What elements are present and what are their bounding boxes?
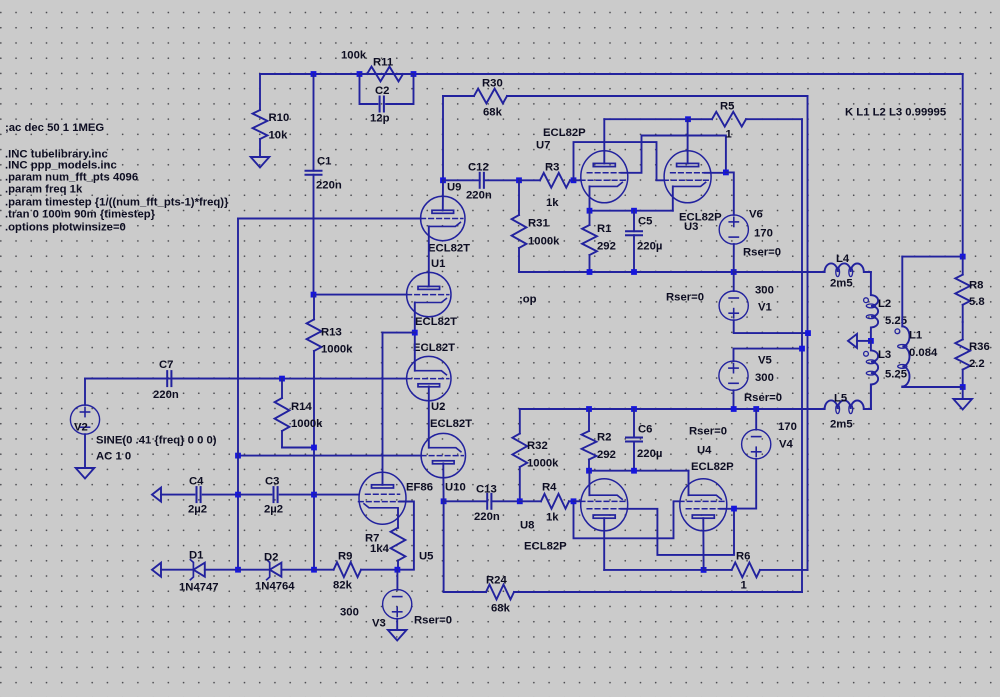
node junction R13net C row <box>311 492 317 498</box>
label C6 <box>638 423 652 435</box>
svg-text:82k: 82k <box>333 579 353 591</box>
wire V6 top lead <box>726 172 734 215</box>
node junction C1 R13 U1grid <box>311 292 317 298</box>
node junction V4 top <box>753 406 759 412</box>
label U8 <box>520 519 534 531</box>
svg-text:220n: 220n <box>316 179 342 191</box>
node junction C5 bottom <box>631 269 637 275</box>
wire mid rail 272 <box>519 271 825 273</box>
svg-text:SINE(0 .41 {freq} 0 0 0): SINE(0 .41 {freq} 0 0 0) <box>96 434 217 446</box>
label C5 <box>638 215 652 227</box>
value 1 R6 <box>741 579 747 591</box>
resistor R9 <box>314 562 397 577</box>
node junction R3 left <box>516 177 522 183</box>
directive K coupling <box>845 107 946 119</box>
wire U1 grid <box>314 294 407 296</box>
label R8 <box>969 279 983 291</box>
svg-text:1N4764: 1N4764 <box>255 580 295 592</box>
svg-text:Rser=0: Rser=0 <box>666 291 704 303</box>
port arrow input lower <box>152 563 161 577</box>
value 292 R1 <box>597 240 616 252</box>
label U7 <box>536 139 550 151</box>
label L5 <box>834 392 847 404</box>
value AC V2 <box>96 450 131 462</box>
svg-text:C4: C4 <box>189 475 204 487</box>
wire V5 bottom lead <box>733 390 735 409</box>
svg-text:C13: C13 <box>476 483 497 495</box>
label C4 <box>189 475 204 487</box>
resistor R1 <box>582 211 597 272</box>
svg-text:C7: C7 <box>159 359 173 371</box>
wire EF86 plate up <box>382 333 384 485</box>
capacitor C5 <box>626 211 642 272</box>
wire D1 to bus <box>205 569 238 571</box>
resistor R11 <box>360 67 414 82</box>
label R36 <box>969 341 990 353</box>
node N001 junction C1 top <box>311 71 317 77</box>
wire input bus vertical <box>237 219 239 570</box>
wire V4 bottom lead <box>734 459 756 509</box>
value 220n C12 <box>466 189 492 201</box>
label Rser=0 V3 <box>414 614 452 626</box>
label C7 <box>159 359 173 371</box>
wire arrow to C4 <box>161 494 194 496</box>
label R6 <box>736 550 750 562</box>
svg-text:1: 1 <box>741 579 747 591</box>
wire plate tie to R5 <box>604 118 688 120</box>
svg-text:ECL82T: ECL82T <box>428 242 470 254</box>
node junction C6 top rail <box>631 406 637 412</box>
svg-text:R9: R9 <box>338 550 352 562</box>
label R4 <box>542 481 557 493</box>
svg-text:R2: R2 <box>597 431 611 443</box>
svg-text:ECL82T: ECL82T <box>413 342 455 354</box>
resistor R4 <box>520 494 574 509</box>
label R14 <box>291 401 312 413</box>
resistor R13 <box>307 295 322 377</box>
node junction R1 top <box>587 208 593 214</box>
directive param1 <box>5 171 138 183</box>
value 2m5 L4 <box>830 277 853 289</box>
resistor R8 <box>955 257 970 322</box>
port arrow input upper <box>152 488 161 502</box>
svg-text:R13: R13 <box>321 326 342 338</box>
svg-text:1k: 1k <box>546 511 559 523</box>
wire L1 top link <box>902 256 962 258</box>
svg-text:R11: R11 <box>373 56 393 68</box>
svg-text:U3: U3 <box>684 221 698 233</box>
capacitor C7 <box>85 371 282 386</box>
wire bus to D2 <box>238 569 270 571</box>
svg-text:1000k: 1000k <box>527 457 559 469</box>
value 100k R11 <box>341 49 367 61</box>
label R7 <box>365 532 379 544</box>
directive inc1 <box>5 148 108 160</box>
wire U9 grid <box>238 218 421 220</box>
wire C7 U2 grid row <box>85 378 407 380</box>
value 1N4764 D2 <box>255 580 295 592</box>
label Rser=0 V6 <box>743 246 781 258</box>
svg-text:U8: U8 <box>520 519 534 531</box>
voltage source V1 300 <box>719 291 748 320</box>
wire U8a cathode up <box>588 471 590 496</box>
label Rser=0 V5 <box>744 392 782 404</box>
svg-text:R3: R3 <box>545 161 559 173</box>
wire L1 top <box>901 257 903 327</box>
svg-text:V6: V6 <box>749 208 763 220</box>
wire U9 plate up <box>442 180 444 210</box>
label C12 <box>468 161 489 173</box>
svg-text:R32: R32 <box>527 440 548 452</box>
wire cathode rail top <box>590 210 673 212</box>
node junction bus C row <box>235 492 241 498</box>
label ECL82P U7 <box>543 127 586 139</box>
value 2u2 C4 <box>188 503 207 515</box>
value 1000k R13 <box>321 343 353 355</box>
svg-text:V4: V4 <box>779 438 794 450</box>
node junction C6 bottom <box>631 468 637 474</box>
transistor U2 ECL82T triode <box>407 356 451 400</box>
svg-text:1k: 1k <box>546 197 559 209</box>
label ECL82P U3 <box>679 211 722 223</box>
svg-text:.INC ppp_models.inc: .INC ppp_models.inc <box>5 160 117 172</box>
svg-text:1000k: 1000k <box>528 235 560 247</box>
label Rser=0 V4 <box>689 425 727 437</box>
svg-text:5.25: 5.25 <box>885 368 907 380</box>
ground under V3 <box>388 630 407 641</box>
svg-text:.param freq 1k: .param freq 1k <box>5 183 83 195</box>
resistor R7 <box>391 528 406 570</box>
wire U10 grid <box>238 455 421 457</box>
svg-text:5.8: 5.8 <box>969 296 985 308</box>
svg-text:R6: R6 <box>736 550 750 562</box>
node junction R2 top rail <box>586 406 592 412</box>
value 1000k R32 <box>527 457 559 469</box>
capacitor C12 <box>443 173 519 188</box>
label R31 <box>528 217 549 229</box>
svg-text:R10: R10 <box>269 112 290 124</box>
wire mid rail 409 <box>520 408 825 410</box>
svg-text:R36: R36 <box>969 341 990 353</box>
value 170 V4 <box>778 421 797 433</box>
wire B+ right drop to output <box>962 74 964 257</box>
svg-text:R8: R8 <box>969 279 983 291</box>
wire U10 plate to R24 <box>444 501 486 592</box>
value 2m5 L5 <box>830 418 853 430</box>
svg-text:ECL82P: ECL82P <box>543 127 586 139</box>
svg-text:C5: C5 <box>638 215 652 227</box>
wire C3 to R13 net <box>280 494 314 496</box>
wire EF86 cathode down <box>397 508 399 527</box>
label L4 <box>836 253 850 265</box>
svg-text:U5: U5 <box>419 550 433 562</box>
label ECL82T U9 <box>428 242 470 254</box>
value SINE V2 <box>96 434 217 446</box>
label U5 <box>419 550 433 562</box>
value 1k R3 <box>546 197 559 209</box>
label R30 <box>482 77 503 89</box>
capacitor C13 <box>444 494 520 509</box>
label V3 <box>372 617 386 629</box>
wire R30 left drop <box>442 96 444 180</box>
resistor R31 <box>512 180 527 272</box>
wire V1 bottom lead <box>734 320 808 333</box>
svg-text:EF86: EF86 <box>406 481 433 493</box>
wire bus to C3 <box>238 494 271 496</box>
node junction R6 left <box>701 567 707 573</box>
svg-text:;ac dec 50 1 1MEG: ;ac dec 50 1 1MEG <box>5 122 104 134</box>
directive ac <box>5 122 104 134</box>
svg-text:292: 292 <box>597 240 616 252</box>
wire U7b plate up <box>687 119 689 163</box>
svg-text:Rser=0: Rser=0 <box>689 425 727 437</box>
node junction C12 left <box>440 177 446 183</box>
value 1k R4 <box>546 511 559 523</box>
value 1k4 R7 <box>370 543 390 555</box>
svg-text:220n: 220n <box>466 189 492 201</box>
label ECL82P U8 <box>524 540 567 552</box>
node junction R1 bottom <box>587 269 593 275</box>
transistor U9 ECL82T triode <box>421 196 465 240</box>
svg-text:U10: U10 <box>445 481 466 493</box>
wire U8b g2 ext <box>720 508 734 510</box>
wire C2 frame left <box>360 74 378 104</box>
op-amp U5 EF86 pentode <box>359 472 407 524</box>
node junction R11 left <box>357 71 363 77</box>
node junction R3 right grid <box>571 177 577 183</box>
svg-text:C12: C12 <box>468 161 489 173</box>
svg-text:L5: L5 <box>834 392 847 404</box>
voltage source V5 300 <box>719 361 748 390</box>
node junction EF86 plate tie <box>412 330 418 336</box>
wire U7a cathode down <box>589 186 591 210</box>
svg-text:1000k: 1000k <box>291 418 323 430</box>
node junction R36 bottom <box>960 384 966 390</box>
svg-text:V5: V5 <box>758 354 772 366</box>
wire L5 right up <box>864 385 871 410</box>
svg-text:5.25: 5.25 <box>885 315 907 327</box>
wire g2 tie bottom <box>621 509 734 555</box>
directive options <box>5 222 126 234</box>
wire outer feedback vertical <box>807 96 809 333</box>
svg-text:AC 1 0: AC 1 0 <box>96 450 131 462</box>
value 1 R5 <box>726 128 732 140</box>
wire L4 to L2 <box>870 272 872 295</box>
svg-text:.param num_fft_pts 4096: .param num_fft_pts 4096 <box>5 171 138 183</box>
label Rser=0 V1 <box>666 291 704 303</box>
op-amp U8 tube a ECL82P pentode <box>580 479 628 531</box>
node junction V6 V1 <box>731 269 737 275</box>
svg-text:V1: V1 <box>758 301 772 313</box>
node junction center tap <box>868 338 874 344</box>
directive tran <box>5 208 156 220</box>
svg-text:1000k: 1000k <box>321 343 353 355</box>
svg-text:170: 170 <box>778 421 797 433</box>
value 300 V5 <box>755 372 774 384</box>
wire D2 to R13net <box>281 569 314 571</box>
wire V2 bottom lead <box>84 434 86 467</box>
node junction g2 V4 <box>731 506 737 512</box>
label C3 <box>265 475 279 487</box>
wire R14 bottom link <box>282 447 314 449</box>
svg-text:ECL82T: ECL82T <box>415 316 457 328</box>
svg-text:U7: U7 <box>536 139 550 151</box>
label R24 <box>486 574 507 586</box>
wire V5 top lead <box>734 349 803 362</box>
wire EF86 plate link <box>383 332 415 334</box>
svg-text:0.084: 0.084 <box>909 347 938 359</box>
label V2 <box>74 421 88 433</box>
inductor L3 <box>864 341 879 409</box>
value 220n C1 <box>316 179 342 191</box>
wire g2 tie top <box>621 136 726 173</box>
wire EF86 g2 path <box>397 502 414 570</box>
resistor R36 <box>955 322 970 387</box>
wire V3 bottom lead <box>396 619 398 630</box>
svg-text:2m5: 2m5 <box>830 277 853 289</box>
inductor L5 <box>825 400 871 413</box>
svg-text:220n: 220n <box>474 511 500 523</box>
capacitor C4 <box>197 487 201 502</box>
label R1 <box>597 223 611 235</box>
inductor L4 <box>734 263 871 276</box>
value 1N4747 D1 <box>179 581 219 593</box>
svg-text:R4: R4 <box>542 481 557 493</box>
label U3 <box>684 221 698 233</box>
inductor L2 <box>864 295 879 341</box>
svg-text:.param timestep {1/((num_fft_p: .param timestep {1/((num_fft_pts-1)*freq… <box>5 196 229 208</box>
label U2 <box>431 401 445 413</box>
voltage source V2 input <box>70 405 99 434</box>
directive param2 <box>5 183 83 195</box>
node junction R13net D row <box>311 567 317 573</box>
capacitor C2 <box>380 97 384 112</box>
ground output <box>953 399 972 410</box>
resistor R3 <box>519 173 574 188</box>
svg-text:C6: C6 <box>638 423 652 435</box>
svg-text:.tran 0 100m 90m {timestep}: .tran 0 100m 90m {timestep} <box>5 208 156 220</box>
svg-text:220µ: 220µ <box>637 240 662 252</box>
value 1000k R31 <box>528 235 560 247</box>
wire stub to U8a g1 <box>574 500 581 502</box>
svg-text:Rser=0: Rser=0 <box>744 392 782 404</box>
svg-text:V2: V2 <box>74 421 88 433</box>
node junction R5 left <box>685 116 691 122</box>
svg-text:ECL82P: ECL82P <box>691 461 734 473</box>
label U1 <box>431 258 445 270</box>
label R11 <box>373 56 393 68</box>
svg-text:300: 300 <box>340 606 359 618</box>
svg-text:.options plotwinsize=0: .options plotwinsize=0 <box>5 222 126 234</box>
value 300 V3 <box>340 606 359 618</box>
label V6 <box>749 208 763 220</box>
node junction R7 V3 R9 <box>395 567 401 573</box>
wire arrow to D1 <box>161 569 193 571</box>
value 220u C6 <box>637 448 662 460</box>
svg-text:U9: U9 <box>447 181 461 193</box>
svg-text:C3: C3 <box>265 475 279 487</box>
label V4 <box>779 438 794 450</box>
node junction V5 feedback <box>799 346 805 352</box>
value 5.8 R8 <box>969 296 985 308</box>
wire U7b cathode down <box>672 186 674 210</box>
label V1 <box>758 301 772 313</box>
label EF86 <box>406 481 433 493</box>
svg-text:220n: 220n <box>153 389 179 401</box>
wire U1 cathode to U2 cathode <box>414 303 416 371</box>
value 68k R24 <box>491 602 511 614</box>
svg-text:1k4: 1k4 <box>370 543 390 555</box>
svg-text:ECL82P: ECL82P <box>524 540 567 552</box>
value 12p C2 <box>370 112 390 124</box>
node junction V1 feedback <box>805 330 811 336</box>
value 82k R9 <box>333 579 353 591</box>
svg-text:R31: R31 <box>528 217 549 229</box>
svg-text:300: 300 <box>755 284 774 296</box>
voltage source V3 300 <box>383 590 412 619</box>
node junction R14 R13 <box>311 445 317 451</box>
node junction U10 grid tap <box>235 453 241 459</box>
svg-text:170: 170 <box>754 227 773 239</box>
value 220u C5 <box>637 240 662 252</box>
inductor L1 <box>895 326 909 387</box>
node junction R14 top <box>279 376 285 382</box>
wire V2 top lead <box>84 379 86 405</box>
label R32 <box>527 440 548 452</box>
svg-text:U4: U4 <box>697 444 712 456</box>
label ECL82T U1 <box>415 316 457 328</box>
svg-text:10k: 10k <box>269 129 289 141</box>
label R13 <box>321 326 342 338</box>
label C1 <box>317 155 331 167</box>
transistor U10 ECL82T triode <box>421 433 465 477</box>
value 5.25 L2 <box>885 315 907 327</box>
node junction R8 top <box>960 254 966 260</box>
svg-text:68k: 68k <box>483 106 503 118</box>
resistor R14 <box>275 379 290 448</box>
node junction V5 bottom <box>731 406 737 412</box>
transistor U1 ECL82T triode <box>407 272 451 316</box>
svg-text:C1: C1 <box>317 155 331 167</box>
svg-text:L1: L1 <box>909 329 922 341</box>
svg-text:L2: L2 <box>878 298 891 310</box>
resistor R2 <box>582 409 597 471</box>
svg-text:R24: R24 <box>486 574 507 586</box>
label R5 <box>720 100 734 112</box>
label ECL82P U4 <box>691 461 734 473</box>
svg-text:.INC tubelibrary.inc: .INC tubelibrary.inc <box>5 148 108 160</box>
svg-text:V3: V3 <box>372 617 386 629</box>
ground under V2 <box>76 468 95 479</box>
wire V1 top lead <box>733 272 735 291</box>
node junction g2 V6 <box>723 170 729 176</box>
label R10 <box>269 112 290 124</box>
wire U7b g2 ext <box>705 172 726 174</box>
svg-text:U2: U2 <box>431 401 445 413</box>
wire outer feedback lower <box>807 333 809 570</box>
resistor R24 <box>444 585 802 600</box>
diode D1 1N4747 <box>190 560 204 580</box>
svg-text:292: 292 <box>597 449 616 461</box>
svg-text:L3: L3 <box>878 349 891 361</box>
label L2 <box>878 298 891 310</box>
value 220n C7 <box>153 389 179 401</box>
directive inc2 <box>5 160 117 172</box>
diode D2 1N4764 <box>267 560 282 580</box>
svg-text:Rser=0: Rser=0 <box>743 246 781 258</box>
wire gnd lead output <box>962 387 964 399</box>
label U4 <box>697 444 712 456</box>
